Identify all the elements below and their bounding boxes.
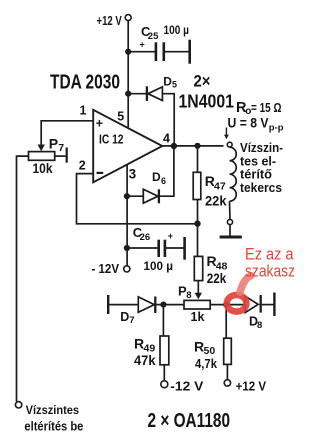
ground chassis bar: [220, 236, 242, 239]
C25 end terminal bar: [188, 40, 191, 64]
svg-text:+: +: [96, 117, 103, 131]
terminal +12V bottom: [224, 380, 230, 386]
wire C26 left lead: [127, 247, 158, 249]
svg-text:tekercs: tekercs: [240, 181, 282, 195]
svg-text:7: 7: [58, 142, 64, 154]
svg-text:2×: 2×: [194, 73, 211, 91]
svg-text:- 12V: - 12V: [92, 261, 120, 276]
svg-text:100 µ: 100 µ: [144, 259, 174, 273]
P8 wiper arrow: [195, 293, 202, 300]
svg-text:25: 25: [148, 31, 159, 42]
wire R50 bottom lead: [226, 364, 228, 379]
node C26 tap: [124, 245, 130, 251]
svg-text:1N4001: 1N4001: [179, 92, 235, 112]
wire P7 right lead: [55, 155, 66, 157]
resistor R50: [224, 338, 232, 364]
wire C25 branch: [128, 51, 155, 53]
svg-text:+12 V: +12 V: [236, 378, 267, 393]
node P8 R50 D8: [223, 302, 229, 308]
P7 right end bar: [66, 148, 68, 163]
svg-text:7: 7: [129, 315, 134, 326]
wire D5 anode to output node: [162, 94, 174, 145]
wire D7 anode from terminal: [108, 304, 138, 306]
wire C25 to end bar: [165, 51, 189, 53]
terminal coil top: [227, 142, 232, 147]
svg-text:D: D: [120, 310, 129, 324]
node R47 top: [194, 143, 200, 149]
wire D6 cathode up to output: [160, 146, 174, 196]
wire R49 bottom lead: [163, 365, 165, 381]
wire P7 left lead and input rail: [17, 156, 29, 402]
node D6 anode: [124, 193, 130, 199]
op-amp U1 IC12 TDA2030 triangle: [93, 110, 162, 183]
node D5 tap: [125, 91, 131, 97]
node C25 tap: [125, 49, 131, 55]
op-amp minus input mark: [97, 172, 104, 174]
red annotation tail: [240, 276, 251, 293]
terminal -12V bottom: [161, 381, 168, 388]
svg-text:tes el-: tes el-: [240, 154, 276, 168]
wire feedback pin2 to R47/R48 node: [77, 174, 198, 224]
inductor L deflection coil loops: [230, 147, 237, 201]
svg-text:Vízszin-: Vízszin-: [240, 141, 283, 155]
wire coil to ground: [229, 225, 231, 236]
svg-text:6: 6: [161, 176, 166, 186]
P7 wiper arrow: [40, 144, 42, 146]
svg-text:26: 26: [140, 232, 151, 243]
resistor R47: [193, 172, 201, 199]
svg-text:4: 4: [163, 131, 170, 145]
svg-text:D: D: [163, 75, 172, 89]
red annotation loop: [227, 295, 247, 312]
capacitor C26 plates: [159, 240, 165, 257]
svg-text:szakasz: szakasz: [245, 262, 295, 280]
wire D7 cathode to P8 left: [156, 304, 184, 306]
resistor R48: [194, 256, 202, 280]
terminal +12V top: [125, 15, 131, 21]
node D7 R49 P8: [160, 302, 166, 308]
diode D7: [138, 297, 155, 314]
svg-text:IC 12: IC 12: [99, 131, 124, 146]
svg-text:8: 8: [257, 320, 262, 331]
svg-text:8: 8: [186, 290, 191, 301]
svg-text:100 µ: 100 µ: [164, 25, 190, 37]
wire R47 top lead: [197, 146, 199, 173]
diode D5: [147, 86, 163, 101]
wire D8 cathode to terminal: [262, 304, 275, 306]
wire R49 top lead: [162, 305, 164, 336]
potentiometer P8 body: [184, 300, 210, 309]
svg-text:5: 5: [172, 79, 177, 89]
wire R50 top lead: [225, 305, 227, 339]
terminal circles: [15, 15, 232, 408]
svg-text:1k: 1k: [191, 310, 205, 324]
svg-text:-12 V: -12 V: [170, 378, 203, 393]
svg-text:térítő: térítő: [240, 168, 272, 182]
node output pin4: [171, 143, 177, 149]
svg-text:Ez az a: Ez az a: [245, 246, 294, 264]
wire pin3 to -12V: [126, 165, 128, 266]
svg-text:+: +: [140, 40, 145, 50]
svg-text:2: 2: [79, 158, 86, 172]
C26 end terminal bar: [183, 237, 186, 260]
svg-text:= 15 Ω: = 15 Ω: [251, 100, 282, 115]
wire D6 anode: [127, 195, 143, 197]
wire R48 to P8 wiper: [197, 281, 199, 294]
svg-text:3: 3: [129, 167, 137, 182]
wire P8 right to D8 anode: [210, 304, 245, 306]
D7 left terminal bar: [107, 295, 109, 314]
node R47 bottom feedback: [194, 220, 200, 226]
junction node dots: [124, 49, 229, 308]
svg-text:1: 1: [80, 104, 87, 118]
wire output to coil: [162, 145, 224, 147]
wire R47 bottom to R48 top: [197, 200, 199, 257]
svg-text:47k: 47k: [134, 352, 156, 368]
svg-text:22k: 22k: [207, 270, 227, 286]
capacitor C25 plates: [156, 42, 164, 61]
wire D5 branch: [128, 93, 146, 95]
terminal -12V mid: [124, 266, 130, 272]
svg-text:+12 V: +12 V: [97, 14, 123, 28]
potentiometer P7 body: [29, 152, 55, 161]
svg-text:Vízszintes: Vízszintes: [26, 403, 80, 417]
svg-text:TDA 2030: TDA 2030: [50, 72, 120, 94]
svg-text:p-p: p-p: [269, 123, 284, 134]
resistor R49: [160, 336, 169, 365]
terminal input bottom left: [15, 402, 21, 408]
svg-text:eltérítés be: eltérítés be: [24, 419, 83, 433]
wire +12V rail down to pin 5: [127, 21, 129, 127]
svg-text:5: 5: [117, 110, 124, 124]
svg-text:2 × OA1180: 2 × OA1180: [148, 410, 231, 432]
svg-text:22k: 22k: [205, 193, 227, 209]
svg-text:P: P: [49, 135, 58, 151]
svg-text:4,7k: 4,7k: [195, 356, 218, 371]
svg-text:+: +: [168, 231, 173, 241]
svg-text:D: D: [152, 170, 161, 184]
U measurement arrow: [225, 128, 227, 136]
wire C26 right lead: [166, 247, 184, 249]
terminal coil bottom: [227, 219, 232, 224]
wire pin1 to P7 wiper: [41, 121, 92, 144]
D8 right terminal bar: [273, 293, 275, 317]
diode D8: [245, 295, 261, 313]
wire coil bottom stub: [229, 201, 232, 219]
svg-text:47: 47: [214, 180, 226, 192]
svg-text:U = 8 V: U = 8 V: [228, 115, 269, 130]
diode D6: [143, 189, 159, 203]
svg-text:10k: 10k: [33, 160, 53, 176]
